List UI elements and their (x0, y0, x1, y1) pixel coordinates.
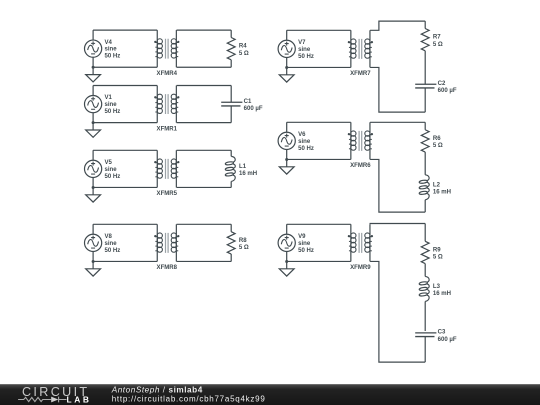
wire V1 bottom (93, 122, 157, 124)
label L2 16 mH (433, 182, 451, 195)
CircuitLab logo (18, 385, 90, 404)
svg-text:V1: V1 (105, 95, 113, 101)
wire L1 leads (230, 150, 232, 187)
resistor R8 5 Ω (227, 232, 235, 254)
footer bar (0, 384, 540, 405)
wire XFMR7 secondary bottom (370, 67, 425, 112)
svg-text:50 Hz: 50 Hz (298, 146, 314, 152)
svg-text:sine: sine (105, 167, 118, 173)
capacitor C1 600 µF (221, 102, 242, 106)
wire XFMR1 secondary bottom (177, 122, 232, 124)
resistor R7 5 Ω (421, 29, 429, 51)
wire XFMR8 secondary top (177, 223, 232, 225)
voltage source V4 (85, 40, 102, 57)
wire XFMR4 secondary bottom (177, 66, 232, 68)
wire XFMR8 secondary bottom (177, 260, 232, 262)
capacitor C3 600 µF (415, 333, 436, 337)
ground (86, 121, 101, 137)
wire source V7 leads (286, 30, 288, 67)
resistor R4 5 Ω (227, 38, 235, 60)
label V5 sine 50 Hz (105, 160, 121, 180)
label V4 sine 50 Hz (105, 40, 121, 60)
svg-text:C3: C3 (438, 330, 446, 336)
voltage source V7 (278, 40, 295, 57)
ground (86, 186, 101, 202)
transformer XFMR5 (154, 150, 179, 187)
svg-text:5 Ω: 5 Ω (239, 245, 249, 251)
svg-text:5 Ω: 5 Ω (433, 42, 443, 48)
svg-text:L3: L3 (433, 284, 441, 290)
ground (86, 260, 101, 276)
capacitor C2 600 µF (415, 84, 436, 88)
transformer XFMR4 (154, 30, 179, 67)
wire R6 to L2 (424, 152, 426, 175)
svg-text:16 mH: 16 mH (239, 171, 257, 177)
wire V4 bottom (93, 66, 157, 68)
wire V1 top (93, 85, 157, 87)
wire XFMR9 secondary top (370, 223, 425, 226)
voltage source V6 (278, 132, 295, 149)
voltage source V8 (85, 234, 102, 251)
voltage source V1 (85, 95, 102, 112)
svg-text:50 Hz: 50 Hz (105, 174, 121, 180)
ground (279, 66, 294, 82)
wire source V6 leads (286, 122, 288, 159)
wire XFMR7 secondary top (370, 21, 425, 30)
svg-text:V8: V8 (105, 234, 113, 240)
svg-text:AntonSteph / simlab4: AntonSteph / simlab4 (111, 386, 203, 395)
svg-text:C2: C2 (438, 81, 446, 87)
wire source V1 leads (92, 86, 94, 123)
svg-text:600 µF: 600 µF (438, 337, 457, 343)
wire XFMR4 secondary top (177, 29, 232, 31)
svg-text:sine: sine (298, 47, 311, 53)
wire source V4 leads (92, 30, 94, 67)
svg-text:V4: V4 (105, 40, 113, 46)
svg-text:50 Hz: 50 Hz (298, 248, 314, 254)
svg-text:sine: sine (298, 241, 311, 247)
wire V5 top (93, 149, 157, 151)
svg-text:600 µF: 600 µF (438, 88, 457, 94)
svg-text:XFMR9: XFMR9 (350, 265, 371, 271)
wire R4 leads (230, 30, 232, 67)
svg-text:L2: L2 (433, 182, 441, 188)
wire R6 top lead (424, 122, 426, 129)
wire V9 top (287, 223, 351, 225)
label R6 5 Ω (433, 136, 443, 149)
wire V4 top (93, 29, 157, 31)
wire V7 bottom (287, 66, 351, 68)
wire V8 top (93, 223, 157, 225)
label V9 sine 50 Hz (298, 234, 314, 254)
wire V8 bottom (93, 260, 157, 262)
label V6 sine 50 Hz (298, 132, 314, 152)
transformer XFMR9 (348, 224, 373, 261)
svg-text:5 Ω: 5 Ω (433, 143, 443, 149)
svg-text:R8: R8 (239, 238, 247, 244)
svg-text:5 Ω: 5 Ω (433, 255, 443, 261)
svg-text:V9: V9 (298, 234, 306, 240)
footer text (111, 386, 266, 404)
svg-text:sine: sine (298, 139, 311, 145)
svg-text:R4: R4 (239, 44, 247, 50)
voltage source V5 (85, 160, 102, 177)
label V8 sine 50 Hz (105, 234, 121, 254)
svg-text:XFMR8: XFMR8 (157, 265, 178, 271)
label R9 5 Ω (433, 247, 443, 260)
inductor L3 16 mH (419, 276, 429, 301)
resistor R9 5 Ω (421, 241, 429, 263)
label V1 sine 50 Hz (105, 95, 121, 115)
svg-text:XFMR6: XFMR6 (350, 163, 371, 169)
wire XFMR1 secondary top (177, 85, 232, 87)
svg-text:50 Hz: 50 Hz (105, 54, 121, 60)
wire XFMR6 secondary top (370, 121, 425, 123)
ground (86, 66, 101, 82)
wire L2 bottom lead (424, 200, 426, 212)
svg-text:5 Ω: 5 Ω (239, 51, 249, 57)
voltage source V9 (278, 234, 295, 251)
wire XFMR9 secondary bottom (370, 261, 425, 362)
svg-text:600 µF: 600 µF (244, 106, 263, 112)
label V7 sine 50 Hz (298, 40, 314, 60)
inductor L2 16 mH (419, 175, 429, 200)
label R4 5 Ω (239, 44, 249, 57)
wire source V9 leads (286, 224, 288, 261)
wire V6 bottom (287, 158, 351, 160)
svg-text:50 Hz: 50 Hz (105, 109, 121, 115)
svg-text:L1: L1 (239, 164, 247, 170)
wire V9 bottom (287, 260, 351, 262)
svg-text:50 Hz: 50 Hz (105, 248, 121, 254)
wire R9 to L3 (424, 264, 426, 277)
wire L3 to C3 (424, 301, 426, 331)
svg-text:sine: sine (105, 47, 118, 53)
wire R7 to C2 (424, 51, 426, 84)
wire source V8 leads (92, 224, 94, 261)
wire R8 leads (230, 224, 232, 261)
inductor L1 16 mH (225, 156, 235, 181)
label R7 5 Ω (433, 35, 443, 48)
svg-text:R6: R6 (433, 136, 441, 142)
wire C1 leads (230, 86, 232, 123)
label C1 600 µF (244, 99, 263, 112)
transformer XFMR6 (348, 122, 373, 159)
wire C2 bottom lead (424, 88, 426, 112)
svg-text:XFMR4: XFMR4 (157, 71, 178, 77)
svg-text:V7: V7 (298, 40, 306, 46)
label L3 16 mH (433, 284, 451, 297)
wire V7 top (287, 29, 351, 31)
label C2 600 µF (438, 81, 457, 94)
wire C3 bottom lead (424, 337, 426, 363)
wire R9 top lead (424, 224, 426, 242)
wire XFMR6 secondary bottom (370, 159, 425, 212)
transformer XFMR1 (154, 86, 179, 123)
svg-text:XFMR5: XFMR5 (157, 191, 178, 197)
transformer XFMR7 (348, 30, 373, 67)
wire XFMR5 secondary top (177, 149, 232, 151)
svg-text:http://circuitlab.com/cbh77a5q: http://circuitlab.com/cbh77a5q4kz99 (112, 394, 266, 403)
ground (279, 158, 294, 174)
wire V6 top (287, 121, 351, 123)
svg-text:R9: R9 (433, 247, 441, 253)
ground (279, 260, 294, 276)
wire XFMR5 secondary bottom (177, 186, 232, 188)
svg-text:LAB: LAB (67, 394, 91, 404)
svg-text:R7: R7 (433, 35, 441, 41)
wire source V5 leads (92, 150, 94, 187)
svg-text:50 Hz: 50 Hz (298, 54, 314, 60)
svg-text:16 mH: 16 mH (433, 291, 451, 297)
svg-text:C1: C1 (244, 99, 252, 105)
svg-text:XFMR7: XFMR7 (350, 71, 371, 77)
svg-text:16 mH: 16 mH (433, 189, 451, 195)
svg-text:V5: V5 (105, 160, 113, 166)
svg-text:V6: V6 (298, 132, 306, 138)
svg-text:sine: sine (105, 241, 118, 247)
wire V5 bottom (93, 186, 157, 188)
label C3 600 µF (438, 330, 457, 343)
label L1 16 mH (239, 164, 257, 177)
svg-text:XFMR1: XFMR1 (157, 126, 178, 132)
transformer XFMR8 (154, 224, 179, 261)
svg-text:sine: sine (105, 102, 118, 108)
wire R7 top lead (424, 21, 426, 28)
resistor R6 5 Ω (421, 130, 429, 152)
label R8 5 Ω (239, 238, 249, 251)
